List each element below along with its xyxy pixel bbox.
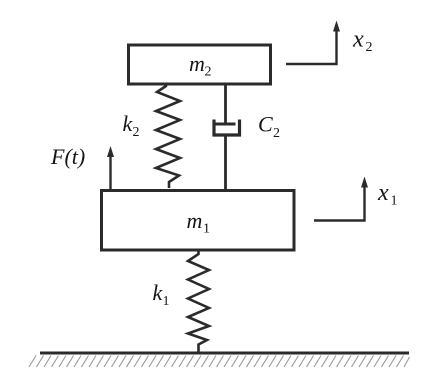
mass m1 <box>102 191 295 251</box>
force F(t) arrowhead <box>107 146 114 157</box>
x1 arrowhead <box>361 177 368 188</box>
svg-text:2: 2 <box>205 65 212 80</box>
damper C2 top rod <box>224 84 227 125</box>
svg-text:1: 1 <box>163 294 170 309</box>
svg-text:2: 2 <box>366 40 373 55</box>
svg-text:2: 2 <box>133 125 140 140</box>
mass m2 <box>129 45 271 84</box>
svg-text:F(t): F(t) <box>50 144 85 169</box>
x2 coordinate axis <box>286 30 337 64</box>
svg-text:x: x <box>377 180 389 206</box>
svg-text:m: m <box>189 51 205 76</box>
damper C2 piston bar <box>216 123 236 126</box>
x1 coordinate axis <box>314 187 365 221</box>
svg-text:1: 1 <box>203 222 210 237</box>
spring k1 <box>188 251 209 352</box>
svg-text:x: x <box>352 27 364 53</box>
spring k2 <box>156 84 180 188</box>
x2 arrowhead <box>333 21 340 32</box>
svg-text:2: 2 <box>273 126 280 141</box>
force F(t) arrow line <box>109 155 111 189</box>
svg-text:C: C <box>258 112 273 137</box>
ground hatching <box>29 356 410 368</box>
damper C2 cylinder cup <box>214 120 240 136</box>
svg-text:1: 1 <box>391 194 398 209</box>
svg-text:m: m <box>187 208 203 233</box>
ground line <box>40 352 409 355</box>
damper C2 bottom rod <box>224 135 227 191</box>
